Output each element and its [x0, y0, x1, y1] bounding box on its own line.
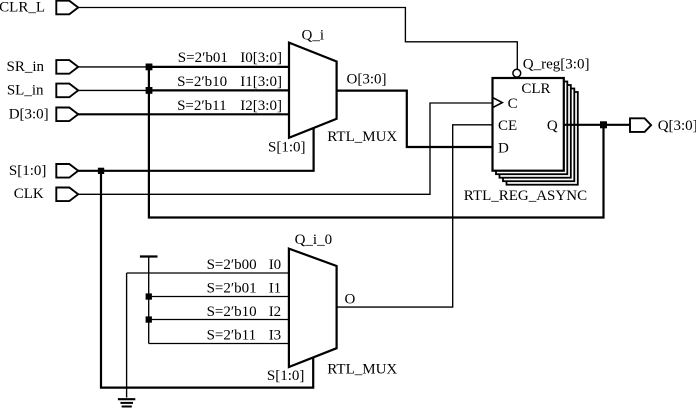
svg-text:S=2′b10: S=2′b10: [177, 74, 227, 90]
svg-text:Q[3:0]: Q[3:0]: [658, 118, 696, 134]
svg-text:C: C: [508, 96, 518, 112]
svg-text:CLK: CLK: [14, 186, 44, 202]
svg-text:S=2′b10: S=2′b10: [207, 304, 257, 320]
svg-text:O[3:0]: O[3:0]: [347, 72, 387, 88]
svg-text:D: D: [498, 140, 509, 156]
svg-text:CLR: CLR: [521, 81, 550, 97]
svg-text:S=2′b11: S=2′b11: [207, 328, 257, 344]
svg-text:Q: Q: [547, 118, 558, 134]
svg-text:CE: CE: [498, 118, 517, 134]
svg-text:SL_in: SL_in: [7, 83, 44, 99]
svg-text:I1[3:0]: I1[3:0]: [240, 74, 282, 90]
svg-text:RTL_MUX: RTL_MUX: [327, 362, 397, 378]
svg-text:I1: I1: [269, 281, 282, 297]
svg-text:S[1:0]: S[1:0]: [9, 163, 47, 179]
svg-text:I0: I0: [269, 257, 282, 273]
svg-text:CLR_L: CLR_L: [0, 0, 45, 15]
svg-text:S=2′b01: S=2′b01: [178, 50, 228, 66]
svg-text:I2[3:0]: I2[3:0]: [240, 98, 282, 114]
svg-text:S=2′b01: S=2′b01: [207, 281, 257, 297]
svg-text:SR_in: SR_in: [6, 59, 44, 75]
svg-text:Q_i: Q_i: [302, 28, 325, 44]
svg-text:I3: I3: [269, 328, 282, 344]
svg-text:I0[3:0]: I0[3:0]: [240, 50, 282, 66]
svg-text:O: O: [345, 292, 356, 308]
svg-text:Q_reg[3:0]: Q_reg[3:0]: [523, 56, 590, 72]
svg-text:Q_i_0: Q_i_0: [295, 232, 333, 248]
svg-text:S=2′b00: S=2′b00: [207, 257, 257, 273]
svg-text:RTL_REG_ASYNC: RTL_REG_ASYNC: [464, 188, 587, 204]
svg-text:S[1:0]: S[1:0]: [267, 368, 305, 384]
svg-text:RTL_MUX: RTL_MUX: [327, 129, 397, 145]
svg-text:I2: I2: [269, 304, 282, 320]
svg-text:D[3:0]: D[3:0]: [9, 107, 49, 123]
svg-text:S[1:0]: S[1:0]: [268, 140, 306, 156]
svg-text:S=2′b11: S=2′b11: [177, 98, 227, 114]
